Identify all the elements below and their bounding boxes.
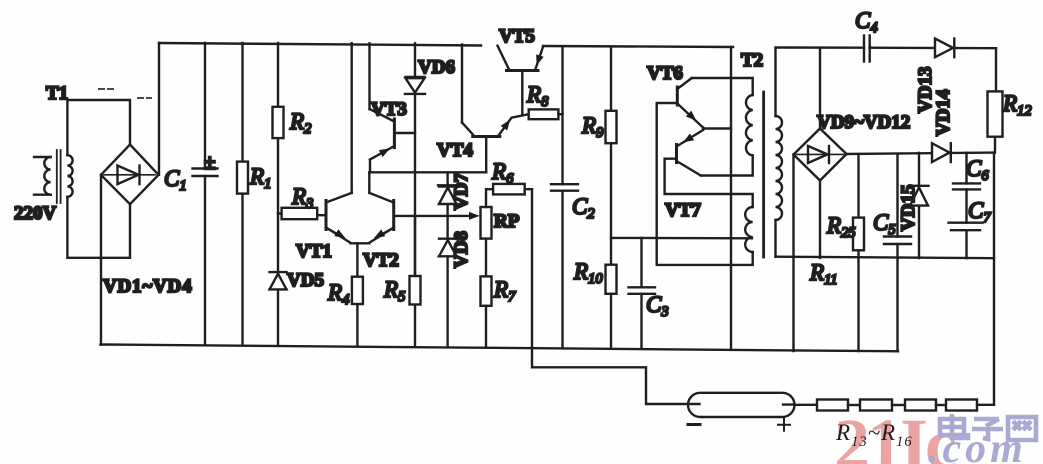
wire T2 secondary bottom to output rail	[774, 220, 776, 257]
scan artifact dashes top left	[99, 89, 151, 98]
diode VD6	[405, 43, 425, 276]
wire top bus left segment	[159, 43, 481, 46]
zener diode VD15	[910, 153, 929, 258]
resistor R15	[905, 400, 936, 411]
svg-text:VD6: VD6	[418, 57, 455, 78]
svg-text:VT3: VT3	[371, 99, 407, 120]
wire VT1 collector to top bus	[351, 43, 353, 193]
resistor R13	[817, 400, 848, 411]
wire VT6 VT7 emitter node to center column	[703, 128, 731, 130]
label battery plus	[778, 419, 790, 431]
svg-text:VD14: VD14	[933, 89, 954, 136]
wire output lower rail	[776, 257, 995, 259]
svg-text:.com: .com	[928, 426, 1027, 464]
transistor VT6	[677, 78, 703, 128]
stub feedback node down	[657, 238, 753, 265]
wire battery to R13	[795, 404, 818, 406]
svg-text:VT6: VT6	[647, 63, 683, 84]
battery cell	[688, 393, 795, 417]
resistor R2	[273, 43, 284, 272]
wire center column top bus to bottom bus	[730, 47, 732, 348]
svg-text:VD7: VD7	[451, 173, 472, 210]
wire VT3 collector to top bus	[368, 43, 370, 109]
wire R8 right end to C2 column	[558, 113, 562, 115]
wire VT7 base wrap	[665, 159, 753, 207]
wire bridge2 output rail	[847, 153, 995, 154]
resistor R16	[946, 400, 977, 411]
wire R6 right end down to bottom bus	[531, 189, 533, 347]
diode VD14	[932, 143, 951, 162]
resistor R4	[352, 243, 363, 346]
wire bridge2 left vertex down	[792, 155, 794, 352]
resistor R5	[410, 216, 421, 346]
wire VT7 collector to primary tap	[701, 156, 753, 176]
svg-text:VD1~VD4: VD1~VD4	[103, 276, 192, 297]
svg-text:VT7: VT7	[665, 200, 701, 221]
svg-text:T2: T2	[741, 50, 763, 71]
svg-text:220V: 220V	[14, 203, 57, 224]
wire VT6 base	[657, 103, 678, 238]
wire common emitter node	[350, 242, 369, 244]
transformer T2 core	[762, 92, 765, 257]
transistor VT5	[498, 46, 544, 71]
wire bridge2 bottom vertex down	[819, 181, 821, 258]
wire R14 to R15	[892, 404, 905, 406]
wire right return column	[993, 153, 995, 405]
capacitor C5	[884, 154, 911, 352]
diode VD13	[935, 39, 954, 58]
resistor R6	[486, 184, 532, 207]
wire top bus middle segment	[543, 46, 733, 47]
capacitor C6	[953, 153, 980, 223]
zener diode VD5	[270, 272, 287, 346]
transformer T2 primary upper winding	[746, 95, 753, 155]
svg-text:VD8: VD8	[451, 231, 472, 268]
transistor VT7	[677, 130, 704, 176]
resistor R1	[237, 43, 248, 346]
watermark dian zi wang	[940, 414, 1036, 440]
transistor VT1	[326, 193, 352, 243]
svg-text:T1: T1	[46, 83, 68, 104]
wire VT3 base to VD6 line	[394, 132, 415, 134]
svg-text:VD5: VD5	[287, 270, 324, 291]
wire VT3 emitter down to node wire	[369, 160, 371, 173]
wire battery branch from bottom bus	[532, 348, 688, 404]
resistor R14	[860, 400, 892, 411]
wire VT4 collector to top bus	[461, 45, 463, 123]
resistor R12	[988, 48, 1003, 152]
diode VD7	[438, 172, 459, 237]
wire R13 to R14	[848, 404, 860, 406]
capacitor C1	[193, 43, 218, 346]
wire bottom bus	[101, 345, 899, 352]
bridge rectifier VD1-VD4	[101, 145, 159, 205]
svg-text:RP: RP	[494, 211, 520, 232]
svg-text:VT5: VT5	[499, 26, 535, 47]
transformer T2 primary lower winding	[745, 207, 752, 252]
resistor R9	[606, 47, 617, 265]
transistor VT2	[369, 193, 393, 243]
svg-text:VT2: VT2	[363, 250, 399, 271]
wire R16 to return column	[977, 404, 994, 406]
wire R15 to R16	[936, 404, 946, 406]
svg-text:VT1: VT1	[296, 241, 332, 262]
potentiometer RP	[481, 207, 492, 276]
wire feedback node to T2 tap	[611, 237, 752, 240]
wire VT5 base down to R8	[521, 71, 523, 115]
transformer T1	[34, 150, 73, 203]
wire top bus right segment	[777, 46, 996, 49]
bridge rectifier VD9-VD12	[794, 129, 847, 181]
label battery minus	[688, 423, 700, 426]
transformer T2 secondary winding	[776, 116, 783, 220]
wire node VT2 collector to VT4 base	[369, 171, 486, 173]
svg-text:VT4: VT4	[437, 140, 473, 161]
wire T2 secondary top to bus	[774, 47, 776, 116]
svg-text:VD15: VD15	[898, 185, 919, 231]
resistor R8	[529, 109, 559, 119]
wire bridge left vertex to bottom bus	[100, 175, 102, 345]
transistor VT3	[370, 109, 395, 160]
svg-text:±: ±	[204, 150, 216, 174]
capacitor C4	[864, 36, 870, 62]
transistor VT4	[462, 114, 529, 136]
wire T1 secondary top to bridge	[67, 100, 130, 155]
capacitor C3	[629, 238, 656, 347]
wire bridge right vertex to top bus	[158, 43, 160, 175]
wire T1 secondary bottom to bridge	[67, 197, 130, 258]
diode VD8	[439, 239, 457, 346]
resistor R25	[853, 154, 864, 351]
resistor R3	[278, 208, 326, 219]
wire VT6 collector to T2 primary top	[692, 78, 753, 95]
capacitor C2	[551, 46, 578, 347]
resistor R7	[481, 276, 492, 346]
svg-text:VD9~VD12: VD9~VD12	[817, 112, 910, 133]
wire bridge2 top vertex to bus	[819, 48, 821, 129]
wire VT2 collector up to node	[368, 172, 370, 193]
wire VT4 base down to node wire	[485, 138, 487, 172]
resistor R10	[606, 265, 617, 347]
capacitor C7	[949, 223, 983, 258]
RP wiper arrow	[452, 215, 479, 217]
wire VT2 base to RP wiper	[394, 215, 473, 217]
